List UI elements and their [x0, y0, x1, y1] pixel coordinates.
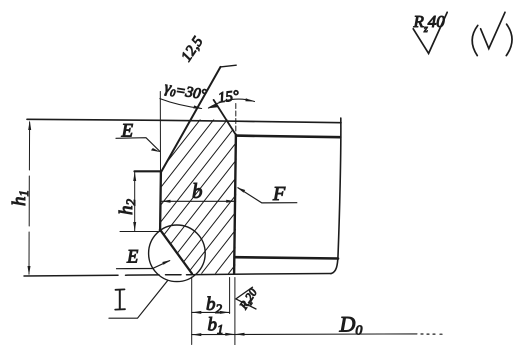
- svg-text:D0: D0: [339, 312, 363, 339]
- svg-text:b1: b1: [208, 315, 224, 337]
- b2 right extension: [229, 278, 231, 314]
- b arrows: [161, 200, 236, 203]
- hatching: [36, 112, 368, 278]
- D0 trailing dots: [421, 333, 442, 335]
- h2 dimension line: [134, 172, 136, 232]
- h2 top extension: [135, 170, 161, 172]
- tooth left face: [159, 172, 162, 230]
- rim right edge: [331, 118, 341, 274]
- h2 arrows: [133, 172, 136, 232]
- disc top outline: [27, 119, 341, 122]
- svg-text:h1: h1: [9, 190, 31, 206]
- svg-text:F: F: [272, 183, 286, 205]
- rim top thick line: [236, 136, 340, 138]
- 15 deg arc right arrow: [245, 98, 254, 101]
- 15 deg arc: [209, 99, 255, 108]
- gamma arc: [160, 99, 202, 109]
- I leader: [109, 281, 168, 318]
- bracket check mark: [472, 25, 478, 55]
- b dimension line: [161, 200, 235, 202]
- b1 right extension: [234, 278, 236, 345]
- rim bottom thick line: [236, 257, 338, 258]
- disc bottom outline: [24, 274, 331, 277]
- tooth top bevel: [214, 100, 236, 135]
- svg-text:12,5: 12,5: [179, 34, 207, 65]
- b1 arrows: [192, 333, 235, 336]
- bevel extension line: [235, 104, 237, 135]
- tooth chamfer edge: [160, 230, 192, 274]
- detail circle: [149, 225, 206, 282]
- svg-text:h2: h2: [116, 199, 138, 216]
- h2 bottom extension: [120, 231, 160, 233]
- gamma extension line: [159, 92, 161, 172]
- roughness tick on rake extension: [221, 65, 237, 67]
- svg-text:b2: b2: [206, 294, 223, 316]
- svg-text:γ0=30°: γ0=30°: [163, 79, 208, 104]
- Rz20 roughness mark: [236, 287, 256, 309]
- b2 arrows: [192, 311, 230, 314]
- h1 arrows: [28, 120, 32, 275]
- tooth right face: [234, 135, 236, 274]
- 15 deg arc left arrow: [208, 104, 218, 108]
- svg-text:Rz40: Rz40: [413, 12, 446, 35]
- svg-text:15°: 15°: [217, 88, 240, 106]
- svg-text:Rz20: Rz20: [237, 287, 260, 313]
- b2 left extension: [191, 277, 193, 345]
- D0 left arrow: [235, 333, 245, 336]
- gamma arc arrow: [193, 105, 202, 108]
- svg-text:b: b: [192, 179, 203, 203]
- h1 dimension line: [28, 122, 31, 274]
- b2 dimension line: [192, 311, 230, 313]
- svg-text:E: E: [126, 248, 138, 268]
- detail label I: [119, 290, 121, 308]
- tooth rake face: [161, 67, 221, 172]
- b1/D0 dimension line: [192, 333, 417, 336]
